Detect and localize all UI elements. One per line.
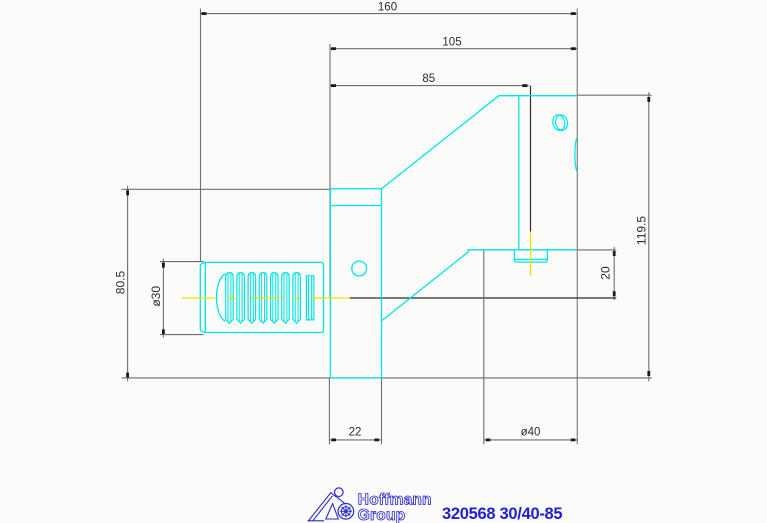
svg-text:Group: Group: [358, 507, 406, 523]
part: shank left chamfer line: [204, 262, 206, 332]
extension line ø40 left (x=483.8): [483, 250, 485, 444]
dimension ø40 arrow dots: [486, 439, 576, 442]
svg-text:105: 105: [442, 37, 461, 49]
dimension 119.5 vertical line: [648, 92, 650, 381]
logo: figure triangle outer: [309, 493, 337, 521]
part: flange rectangle: [330, 189, 381, 378]
dimension 80.5 arrow dots: [126, 190, 129, 377]
svg-text:ø40: ø40: [521, 427, 541, 439]
extension line 85 right to slot centre (x=530.5 black): [530, 86, 532, 232]
part: flange hole circle: [352, 261, 367, 276]
logo: figure triangle base: [308, 520, 325, 522]
part: thread serration inner edge lines: [228, 273, 298, 321]
logo: wheel outer: [338, 504, 354, 520]
svg-text:22: 22: [349, 427, 362, 439]
extension lines ø30: [160, 261, 204, 263]
dimension 105 arrow ticks: [331, 47, 576, 50]
extension line top for 119.5 (y=95.2): [577, 94, 651, 96]
dimension 85 line: [330, 85, 529, 87]
svg-text:ø30: ø30: [149, 286, 163, 307]
part: bore arc on right face: [575, 137, 577, 171]
dimension ø30 arrow dots: [162, 263, 165, 335]
part: body lower edge with step and diagonal: [382, 250, 577, 321]
extension line top for 20 (y=249.9): [577, 249, 616, 251]
svg-text:119.5: 119.5: [635, 216, 649, 245]
extension line bottom shared 80.5/119.5 (y=377.9): [122, 377, 652, 379]
part: thread serration teeth: [226, 273, 301, 324]
logo: figure arm: [336, 497, 345, 505]
dimension 22 line: [329, 439, 381, 441]
dimension 20 vertical line: [613, 247, 615, 300]
part: shank outline ø30: [200, 262, 323, 332]
part: flange top chamfer line: [330, 205, 381, 207]
extension line top for 80.5 (y=189.3): [122, 188, 331, 190]
extension line 105/85 left (x=330): [329, 44, 331, 298]
extension line left of 160 (x=200.5): [200, 9, 202, 263]
logo: figure head: [335, 488, 344, 497]
logo: wheel gear: [340, 505, 352, 517]
dimension 85 arrow ticks: [331, 84, 527, 87]
dimension 119.5 arrow dots: [647, 97, 650, 376]
part: slot wall edge line: [518, 96, 520, 250]
dimension 160 horizontal line: [201, 13, 578, 15]
dimension 80.5 vertical line: [127, 186, 129, 381]
svg-text:20: 20: [599, 266, 613, 280]
part: thread run-out band: [306, 276, 313, 320]
dimension 20 arrow dots: [613, 251, 616, 296]
svg-text:320568 30/40-85: 320568 30/40-85: [442, 505, 562, 523]
centre height extension line right of flange to 20-dim (y=298.1): [349, 297, 617, 299]
dimension 105 line: [330, 48, 577, 50]
centreline vertical slot (yellow): [530, 232, 532, 277]
logo: figure inner triangle: [326, 504, 339, 519]
part: thread run-out arc: [217, 274, 226, 322]
svg-text:160: 160: [378, 1, 397, 13]
extension lines 22: [328, 379, 330, 445]
svg-text:85: 85: [422, 73, 435, 85]
part: clamp slot cup: [514, 250, 547, 262]
svg-text:80.5: 80.5: [113, 270, 127, 294]
dimension ø40 line: [484, 439, 578, 441]
svg-text:Hoffmann: Hoffmann: [358, 492, 432, 509]
extension line right (x=577.3 full height): [576, 9, 578, 445]
dimension ø30 vertical line: [162, 259, 164, 338]
part: coolant hole ellipse pair: [551, 114, 569, 132]
centreline horizontal (yellow): [182, 297, 350, 299]
dimension 22 arrow dots: [331, 439, 379, 442]
dimension 160 arrow ticks: [202, 12, 576, 15]
part: body upper diagonal and top edge: [382, 96, 578, 189]
